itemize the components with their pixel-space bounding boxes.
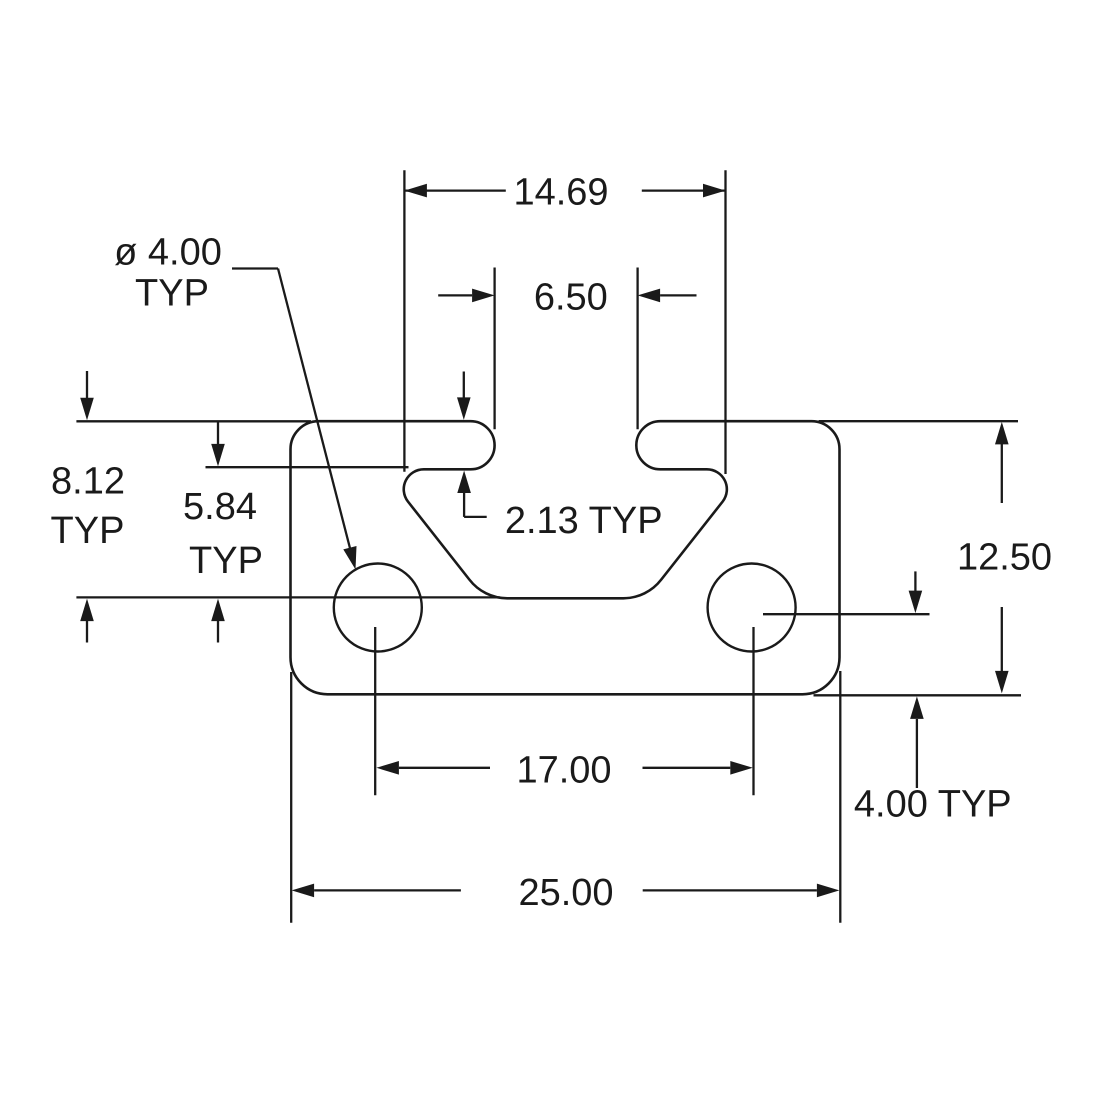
dim 17.00 extension line right (hole centerline) [752,627,754,795]
dim 6.50 left arrow [438,294,472,296]
svg-text:TYP: TYP [135,272,209,314]
dim 25.00 extension line left [290,672,292,923]
dim 8.12 top reference line [76,420,311,422]
dim 12.50 bottom arrow [1001,607,1003,671]
svg-text:ø 4.00: ø 4.00 [114,231,222,273]
dim 17.00 extension line left (hole centerline) [374,627,376,795]
dim 25.00 dimension line + arrows [292,884,315,898]
leader line ø4.00 [232,267,278,269]
dim 6.50 right arrow [660,294,696,296]
dim 14.69 dimension line + arrows [404,189,505,191]
svg-text:8.12: 8.12 [51,460,125,502]
dim 5.84 down arrow [217,421,219,445]
dim 2.13 up arrow at lip underside [457,471,471,494]
dim 12.50 top arrow [995,422,1009,445]
svg-text:4.00 TYP: 4.00 TYP [854,783,1012,825]
svg-text:17.00: 17.00 [516,749,611,791]
dim 5.84 reference line [206,466,409,468]
dim 6.50 extension line left [493,268,495,430]
hole left (ø4.00) [334,564,422,652]
svg-text:14.69: 14.69 [513,171,608,213]
dim 2.13 down arrow at top edge [463,372,465,399]
hole right (ø4.00) [708,564,796,652]
dim 14.69 extension line right [724,170,726,474]
dim 25.00 extension line right [839,671,841,923]
svg-text:6.50: 6.50 [534,276,608,318]
dim 4.00 up arrow [910,696,924,719]
dim 17.00 dimension line + arrows [376,761,399,775]
extrusion profile outline with T-slot channel [291,421,840,694]
dim 12.50 bottom extension line (shared with 4.00) [814,694,1022,696]
svg-text:TYP: TYP [51,510,125,552]
dim 14.69 extension line left [403,170,405,471]
svg-text:12.50: 12.50 [957,536,1052,578]
svg-text:TYP: TYP [189,540,263,582]
channel floor reference line [76,596,499,598]
dim 4.00 down arrow [914,571,916,592]
svg-text:5.84: 5.84 [183,486,257,528]
svg-text:2.13 TYP: 2.13 TYP [505,500,663,542]
dim 8.12 up arrow [86,620,88,643]
dim 12.50 top extension line [819,420,1018,422]
dim 6.50 extension line right [636,268,638,430]
dim 8.12 down arrow [86,371,88,399]
svg-text:25.00: 25.00 [518,872,613,914]
right hole center reference line [763,613,930,615]
dim 5.84 up arrow [217,620,219,643]
